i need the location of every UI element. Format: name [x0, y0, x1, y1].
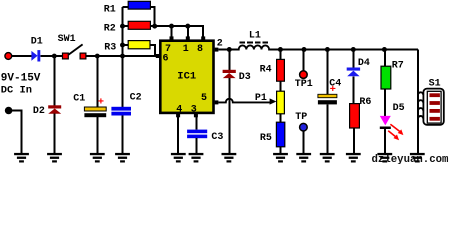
wire down to C1	[96, 56, 98, 107]
resistor R4	[260, 59, 285, 81]
svg-text:1: 1	[183, 44, 189, 55]
svg-text:9V-15V: 9V-15V	[1, 72, 41, 84]
node pin7 drop	[169, 24, 174, 29]
wire SW1 to IC pin 6	[86, 55, 158, 57]
ground (C3)	[189, 153, 204, 163]
wire pin 2 to node	[218, 49, 230, 51]
svg-text:D4: D4	[358, 58, 370, 69]
wire rail to D4	[352, 50, 354, 69]
svg-text:R3: R3	[104, 43, 116, 54]
svg-text:6: 6	[163, 53, 169, 64]
svg-text:D1: D1	[31, 37, 43, 48]
wire node to R4	[279, 50, 281, 60]
wire D3 to ground	[228, 78, 230, 153]
wire C4 to ground	[326, 104, 328, 153]
wire D4 to R6	[352, 76, 354, 103]
svg-text:3: 3	[191, 105, 197, 116]
ground (C2)	[115, 153, 130, 163]
svg-text:4: 4	[176, 105, 182, 116]
wire pin 5 to P1 wiper with hop	[218, 99, 270, 103]
input terminal - (black)	[5, 107, 13, 115]
resistor R5	[260, 122, 285, 147]
node R7	[382, 47, 387, 52]
wire TP to ground	[303, 131, 305, 153]
svg-text:DC In: DC In	[1, 84, 32, 96]
node R1/R2 junction	[152, 24, 157, 29]
capacitor C3	[187, 130, 223, 144]
wire pin 3 to C3	[195, 117, 197, 130]
switch SW1	[58, 34, 86, 59]
capacitor C1	[73, 94, 106, 118]
node junction C1	[95, 54, 100, 59]
svg-text:2: 2	[217, 38, 223, 49]
test point TP	[295, 112, 307, 131]
resistor R1	[104, 1, 151, 15]
wire black terminal to ground	[12, 111, 22, 154]
LED light arrows	[388, 124, 403, 140]
ground (D3)	[222, 153, 237, 163]
svg-text:R7: R7	[392, 60, 404, 71]
svg-text:R4: R4	[260, 64, 272, 75]
wire rail to R7	[384, 50, 386, 67]
svg-text:D5: D5	[393, 103, 405, 114]
wire C3 to ground	[195, 138, 197, 153]
ground (C4)	[320, 153, 335, 163]
wiper arrow	[270, 98, 277, 104]
node TP1	[302, 47, 307, 52]
wire drop to pin 1	[187, 26, 189, 37]
node pin1 drop	[185, 24, 190, 29]
ground (R6)	[346, 153, 361, 163]
capacitor C4	[318, 79, 341, 105]
capacitor C2	[111, 93, 141, 116]
ground (D2)	[47, 153, 62, 163]
wire R2 left lead	[123, 25, 129, 27]
node D4	[351, 47, 356, 52]
connector S1	[418, 79, 444, 125]
ground (C1)	[90, 153, 105, 163]
wire R5 to ground	[280, 147, 282, 153]
svg-text:R5: R5	[260, 133, 272, 144]
wire D5 to ground	[384, 129, 386, 153]
svg-text:5: 5	[201, 93, 207, 104]
wire R6 to ground	[353, 128, 355, 153]
svg-text:TP1: TP1	[295, 79, 313, 90]
wire R4 to P1	[279, 81, 281, 91]
node R3 left	[120, 43, 125, 48]
svg-text:C1: C1	[73, 94, 85, 105]
diode D4	[347, 58, 370, 76]
node C4	[325, 47, 330, 52]
wire C1 to ground	[96, 117, 98, 153]
node R2 left	[120, 24, 125, 29]
diode D3	[223, 70, 251, 83]
wire C2 to ground	[122, 116, 124, 154]
inductor L1	[229, 31, 280, 50]
svg-text:IC1: IC1	[177, 71, 196, 83]
resistor R6	[350, 97, 372, 128]
wire rail corner down to S1 bus	[417, 50, 419, 153]
wire node down to D3	[228, 50, 230, 70]
svg-text:R2: R2	[104, 23, 116, 34]
wire R1 left lead	[123, 6, 129, 8]
wire down to C2	[122, 56, 124, 107]
resistor R2	[104, 21, 151, 34]
ground (TP)	[296, 153, 311, 163]
wire pin 4 to ground	[177, 117, 179, 153]
wire R2 row to pin 8	[150, 26, 203, 37]
svg-text:C3: C3	[211, 132, 223, 143]
wire R3 left lead	[123, 44, 129, 46]
svg-text:SW1: SW1	[58, 34, 76, 45]
resistor R3	[104, 41, 150, 54]
ground (pin 4)	[171, 153, 186, 163]
svg-text:L1: L1	[249, 31, 261, 42]
wire top rail right	[280, 49, 418, 51]
wire D2 to ground	[54, 114, 56, 154]
node pin2/L1/D3	[227, 47, 232, 52]
wire R3 right down to pin 6 rail	[150, 45, 155, 56]
test point TP1	[295, 71, 313, 90]
op IC1 MC34063 body	[156, 36, 219, 117]
svg-text:R6: R6	[359, 97, 371, 108]
wire P1 to R5	[279, 114, 281, 122]
wire D1 to SW1	[40, 55, 64, 57]
diode D2	[33, 105, 61, 117]
diode D1	[31, 37, 43, 62]
wire down to D2	[54, 56, 56, 105]
node junction C2/R-column	[120, 54, 125, 59]
svg-text:D2: D2	[33, 106, 45, 117]
wire drop to pin 7	[171, 26, 173, 37]
wire rail to C4	[326, 50, 328, 95]
ground (R5)	[273, 153, 288, 163]
node junction at D2 branch	[52, 54, 57, 59]
wire R1 right to R2 net	[150, 7, 154, 26]
ground (D5)	[377, 153, 392, 163]
svg-text:8: 8	[197, 44, 203, 55]
wire rail to TP1	[303, 50, 305, 71]
svg-text:D3: D3	[239, 72, 251, 83]
potentiometer P1	[255, 91, 285, 114]
svg-text:TP: TP	[295, 112, 307, 123]
wire R7 to D5	[384, 89, 386, 116]
wire input to D1	[12, 55, 32, 57]
node R4	[278, 47, 283, 52]
resistor R7	[381, 60, 404, 89]
LED D5	[380, 103, 405, 129]
ground (input minus)	[14, 153, 29, 163]
svg-text:R1: R1	[104, 5, 116, 16]
input terminal + (red)	[5, 53, 12, 60]
wire vertical R1-R2-R3 left bus	[122, 7, 124, 56]
svg-text:C2: C2	[130, 93, 142, 104]
ground (S1)	[410, 153, 425, 163]
